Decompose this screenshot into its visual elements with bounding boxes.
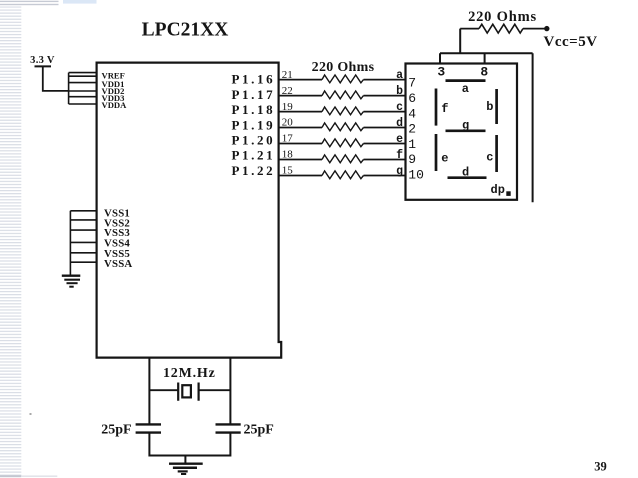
svg-text:VSSA: VSSA (104, 258, 132, 270)
port pin label P1.19 (232, 117, 276, 132)
pin label VSS1 (104, 208, 130, 220)
svg-text:e: e (396, 133, 403, 146)
resistor R5 220 Ohms (322, 139, 364, 147)
port pin label P1.21 (232, 148, 276, 163)
wire resistor to segment a (364, 79, 406, 81)
pin number 18 (282, 149, 294, 161)
pin label VSS2 (104, 218, 130, 230)
svg-text:Vcc=5V: Vcc=5V (544, 34, 598, 50)
display pin number 1 (408, 137, 416, 152)
label 220 Ohms (Vcc resistor) (468, 9, 537, 25)
pin number 21 (282, 69, 293, 81)
svg-text:c: c (396, 101, 403, 114)
wire caps to ground (149, 433, 230, 464)
display pin 3 (437, 65, 445, 80)
svg-text:3: 3 (437, 65, 445, 80)
label Vcc=5V (544, 34, 598, 50)
capacitor C1 25pF (136, 424, 161, 432)
svg-text:25pF: 25pF (244, 423, 274, 438)
display pin number 4 (408, 106, 416, 121)
node label d (396, 117, 403, 130)
port pin label P1.17 (232, 87, 276, 102)
wire 3.3V to VDD pins (43, 66, 69, 91)
svg-text:P1.16: P1.16 (232, 72, 276, 87)
wire P1.22 to resistor (279, 175, 322, 177)
pin label VSS5 (104, 248, 130, 260)
wire P1.19 to resistor (279, 127, 322, 129)
node label c (396, 101, 403, 114)
label 25pF (C1) (101, 423, 131, 438)
chip U1 LPC21XX (97, 63, 282, 358)
svg-text:P1.17: P1.17 (232, 87, 276, 102)
resistor R4 220 Ohms (322, 123, 364, 131)
svg-text:220 Ohms: 220 Ohms (312, 60, 375, 75)
pin label VSS3 (104, 227, 130, 239)
svg-text:12M.Hz: 12M.Hz (163, 366, 216, 381)
label LPC21XX (142, 19, 229, 40)
svg-text:8: 8 (480, 65, 488, 80)
pin number 19 (282, 101, 294, 113)
7-segment display DS1 (406, 64, 518, 200)
svg-text:10: 10 (408, 168, 424, 183)
pin number 22 (282, 85, 293, 97)
svg-text:f: f (396, 149, 403, 162)
wire resistor to segment f (364, 159, 406, 161)
segment b (486, 89, 496, 124)
node label f (396, 149, 403, 162)
svg-text:4: 4 (408, 106, 416, 121)
display pin number 9 (408, 152, 416, 167)
svg-text:c: c (486, 150, 493, 164)
display pin number 7 (408, 76, 416, 91)
segment e (436, 134, 448, 171)
svg-text:P1.21: P1.21 (232, 148, 276, 163)
port pin label P1.22 (232, 163, 276, 178)
port pin label P1.18 (232, 102, 276, 117)
wire XTAL2 from chip (229, 358, 231, 425)
svg-text:3.3 V: 3.3 V (30, 55, 55, 66)
svg-text:g: g (396, 165, 403, 178)
supply 3.3V (30, 55, 55, 66)
node label b (396, 85, 403, 98)
segment d (448, 166, 487, 180)
svg-text:dp: dp (491, 183, 505, 197)
display pin number 2 (408, 122, 416, 137)
svg-text:9: 9 (408, 152, 416, 167)
pin number 15 (282, 165, 294, 177)
segment f (436, 89, 448, 126)
svg-text:P1.18: P1.18 (232, 102, 276, 117)
display pin number 6 (408, 91, 416, 106)
port pin label P1.20 (232, 133, 276, 148)
ground (VSS) (62, 276, 81, 287)
pin label VSSA (104, 258, 132, 270)
wire P1.18 to resistor (279, 111, 322, 113)
resistor R6 220 Ohms (322, 155, 364, 163)
wire P1.20 to resistor (279, 143, 322, 145)
segment g (446, 118, 486, 132)
display pin 8 (480, 65, 488, 80)
pin label VREF (102, 70, 125, 80)
pin number 17 (282, 133, 294, 145)
svg-text:b: b (396, 85, 403, 98)
wire common anode right drop (532, 53, 534, 202)
wire XTAL1 from chip (148, 358, 150, 425)
pin label VDD2 (102, 86, 125, 96)
wire resistor to segment e (364, 143, 406, 145)
label 12M.Hz (163, 366, 216, 381)
wire P1.16 to resistor (279, 79, 322, 81)
resistor R1 220 Ohms (322, 75, 364, 83)
svg-text:f: f (441, 102, 448, 116)
svg-text:P1.20: P1.20 (232, 133, 276, 148)
pin label VDD1 (102, 79, 125, 89)
svg-text:1: 1 (408, 137, 416, 152)
wire resistor to segment b (364, 95, 406, 97)
ground (crystal) (169, 464, 203, 474)
pin label VDDA (102, 100, 128, 110)
svg-text:P1.22: P1.22 (232, 163, 276, 178)
wire P1.21 to resistor (279, 159, 322, 161)
node label e (396, 133, 403, 146)
svg-text:220 Ohms: 220 Ohms (468, 9, 537, 25)
node label a (396, 69, 403, 82)
crystal X1 12MHz (149, 383, 230, 401)
resistor R8 220 Ohms (101, 24, 606, 474)
wire P1.17 to resistor (279, 95, 322, 97)
svg-text:2: 2 (408, 122, 416, 137)
resistor R2 220 Ohms (322, 91, 364, 99)
segment dp (491, 183, 511, 197)
node Vcc dot (544, 26, 549, 31)
node label g (396, 165, 403, 178)
wire resistor to segment d (364, 127, 406, 129)
VSS pin ladder (70, 211, 96, 276)
display pin number 10 (408, 168, 424, 183)
svg-text:6: 6 (408, 91, 416, 106)
svg-text:a: a (396, 69, 403, 82)
port pin label P1.16 (232, 72, 276, 87)
pin number 20 (282, 117, 294, 129)
svg-text:LPC21XX: LPC21XX (142, 19, 229, 40)
label 220 Ohms (port resistors) (312, 60, 375, 75)
svg-text:P1.19: P1.19 (232, 117, 276, 132)
svg-text:7: 7 (408, 76, 416, 91)
pin label VSS4 (104, 238, 130, 250)
segment c (486, 135, 496, 172)
capacitor C2 25pF (216, 424, 241, 432)
svg-text:39: 39 (594, 460, 607, 474)
svg-text:25pF: 25pF (101, 423, 131, 438)
svg-text:VDDA: VDDA (102, 100, 128, 110)
svg-text:d: d (396, 117, 403, 130)
wire resistor to segment c (364, 111, 406, 113)
page number 39 (594, 460, 607, 474)
segment a (446, 81, 486, 96)
label 25pF (C2) (244, 423, 274, 438)
VDD pin ladder (69, 73, 97, 104)
svg-text:e: e (441, 151, 448, 165)
resistor R7 220 Ohms (322, 171, 364, 179)
wire resistor to display common (440, 29, 533, 64)
svg-text:b: b (486, 100, 493, 114)
resistor R3 220 Ohms (322, 107, 364, 115)
svg-text:a: a (462, 82, 469, 96)
pin label VDD3 (102, 93, 125, 103)
wire resistor to segment g (364, 175, 406, 177)
